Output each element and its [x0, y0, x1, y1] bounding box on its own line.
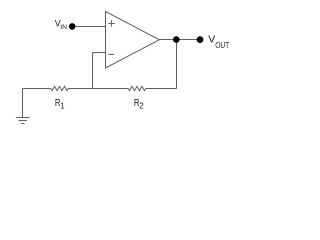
op-amp plus pin symbol — [108, 20, 115, 27]
wire vertical from inverting input down to R1/R2 node — [92, 53, 94, 89]
wire feedback vertical from output node down — [176, 40, 178, 89]
op-amp minus pin symbol — [108, 53, 114, 55]
wire from op-amp output to VOUT terminal — [159, 39, 200, 41]
svg-text:V: V — [208, 35, 215, 46]
wire bottom left from ground riser to R1 — [23, 88, 51, 90]
resistor R1 zigzag — [51, 86, 69, 90]
resistor R2 zigzag — [128, 86, 146, 90]
wire between R1 and R2 — [68, 88, 128, 90]
node output junction dot — [173, 36, 180, 43]
svg-text:OUT: OUT — [215, 40, 229, 50]
wire from inverting input going left — [93, 52, 106, 54]
wire from R2 to feedback vertical — [146, 88, 177, 90]
node VOUT terminal dot — [197, 36, 204, 43]
wire from VIN terminal to op-amp noninverting input — [72, 26, 106, 28]
svg-text:1: 1 — [60, 101, 65, 110]
op-amp U1 triangle — [106, 12, 160, 69]
svg-text:2: 2 — [139, 101, 144, 110]
ground symbol — [16, 118, 30, 124]
node VIN terminal dot — [69, 23, 76, 30]
svg-text:IN: IN — [60, 24, 67, 31]
wire ground riser vertical — [22, 89, 24, 118]
